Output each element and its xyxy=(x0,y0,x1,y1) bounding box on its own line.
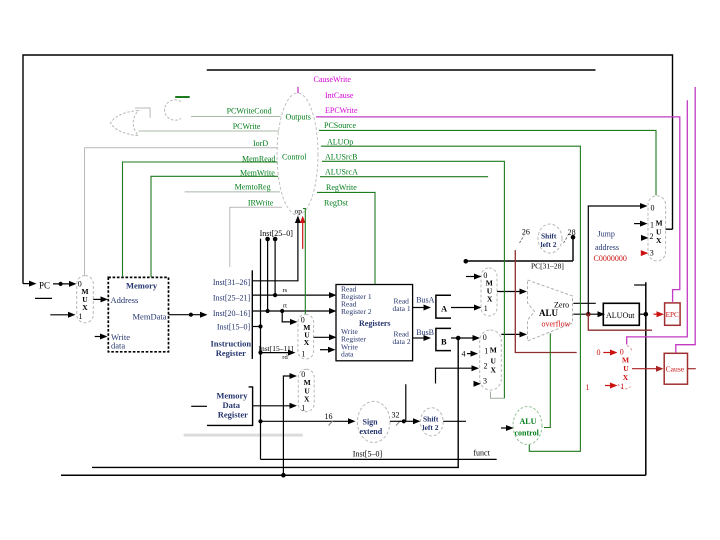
svg-text:Instruction: Instruction xyxy=(211,339,252,349)
svg-text:X: X xyxy=(82,303,88,312)
svg-text:ALUOut: ALUOut xyxy=(606,311,635,320)
svg-text:data 1: data 1 xyxy=(393,304,411,313)
svg-text:Control: Control xyxy=(282,153,307,162)
label bus width 28 xyxy=(564,228,576,243)
svg-text:1: 1 xyxy=(301,403,305,412)
register MDR bracket xyxy=(207,387,253,426)
wire: Read data 2 to B xyxy=(413,335,431,341)
svg-text:PCSource: PCSource xyxy=(324,121,356,130)
svg-text:Outputs: Outputs xyxy=(286,113,311,122)
wire: Read register 1 row xyxy=(252,292,336,298)
wire: PCSource mux input 1 xyxy=(634,221,647,227)
wire: Read data 1 to A xyxy=(413,305,431,311)
svg-text:Inst[25–0]: Inst[25–0] xyxy=(260,229,294,238)
svg-text:ALUSrcB: ALUSrcB xyxy=(325,153,357,162)
wire: rt tap down to RegDst mux input 0 xyxy=(282,311,297,325)
wire: B loop into Memory write data xyxy=(92,334,458,468)
svg-text:ALUSrcA: ALUSrcA xyxy=(325,168,358,177)
svg-text:1: 1 xyxy=(484,346,488,355)
node PC xyxy=(39,281,50,291)
label PCWriteCond xyxy=(227,107,272,116)
wire: IorD mux output to Memory Address xyxy=(93,296,108,302)
svg-text:EPC: EPC xyxy=(666,311,679,319)
svg-text:C0000000: C0000000 xyxy=(594,254,627,263)
label IRWrite xyxy=(248,199,274,208)
wire: Inst[5-0] to ALU control xyxy=(261,458,497,460)
wire: sign-extend branch from Inst[15-0] column xyxy=(258,418,355,424)
svg-text:IntCause: IntCause xyxy=(325,91,354,100)
svg-text:data 2: data 2 xyxy=(393,337,411,346)
wire: red 0 arrow into IntCause mux xyxy=(603,350,617,356)
svg-text:RegWrite: RegWrite xyxy=(326,183,357,192)
svg-text:Registers: Registers xyxy=(359,319,391,328)
svg-text:0: 0 xyxy=(483,333,487,342)
wire: PCSource mux output to frame xyxy=(666,228,673,230)
wire: EPCWrite magenta routing to EPC xyxy=(316,117,680,302)
svg-text:BusA: BusA xyxy=(416,295,434,304)
wire: PCSource mux input 2 arrowhead xyxy=(641,235,649,241)
wire: ALUOut bottom distribution line xyxy=(61,474,646,476)
wire: IntCause mux output to Cause xyxy=(632,366,664,372)
wire: RegWrite green routing to Registers xyxy=(317,192,375,284)
mux IorD (0/1) xyxy=(77,276,94,323)
svg-text:left 2: left 2 xyxy=(541,240,557,249)
svg-text:M: M xyxy=(656,219,663,228)
register A bracket xyxy=(436,295,451,318)
mux PCSource (0/1/2/3) xyxy=(648,196,666,261)
svg-text:IRWrite: IRWrite xyxy=(248,199,274,208)
svg-text:3: 3 xyxy=(483,376,487,385)
wire: maroon EPC feed elbow xyxy=(588,314,652,330)
label EPCWrite xyxy=(325,106,358,115)
wire: 28-bit drop to PC[31-28] line xyxy=(571,235,576,261)
wire: ALUOut loopback to IorD mux input 1 xyxy=(50,312,75,318)
wire: A output to ALUSrcA mux input 1 xyxy=(451,305,482,311)
wire: PCSource mux input 3 red arrowhead xyxy=(641,250,649,256)
svg-text:Register: Register xyxy=(216,348,246,358)
label Inst[5-0] xyxy=(353,449,383,458)
mux RegDst (0/1) xyxy=(298,314,314,359)
wire: constant 4 arrow to ALUSrcB input 1 xyxy=(467,351,478,357)
svg-text:Register 2: Register 2 xyxy=(341,307,372,316)
alu ALU trapezoid xyxy=(528,280,573,341)
label PCWrite xyxy=(233,122,261,131)
label ALUOp xyxy=(327,138,353,147)
svg-text:U: U xyxy=(623,364,629,373)
wire: funct stub into ALU control xyxy=(501,425,514,431)
wire: Inst[15-11] to RegDst mux input 1 xyxy=(258,350,295,356)
label IntCause xyxy=(325,91,354,100)
svg-text:1: 1 xyxy=(79,312,83,321)
label rd xyxy=(282,354,288,361)
alu-control oval xyxy=(513,407,542,445)
register IR vertical edge xyxy=(251,270,253,359)
memory MEM xyxy=(108,277,168,351)
label Inst[15-0] xyxy=(217,322,251,331)
wire: op row Inst[31-26] up to Control xyxy=(252,216,301,281)
label Inst[25-21] xyxy=(213,294,251,303)
wire: PC to IorD mux with junction xyxy=(53,281,77,287)
wire: ALUOut big right vertical xyxy=(645,282,647,475)
wire: RegDst mux output to Write register xyxy=(314,334,337,340)
svg-text:4: 4 xyxy=(462,350,466,359)
svg-text:Memory: Memory xyxy=(126,281,158,291)
svg-text:3: 3 xyxy=(650,249,654,258)
wire: write data floating arrow xyxy=(320,347,336,353)
register IR label xyxy=(211,339,252,359)
svg-text:Register: Register xyxy=(218,410,248,420)
svg-text:CauseWrite: CauseWrite xyxy=(314,75,352,84)
wire: MemRead green routing to Memory xyxy=(123,162,278,277)
svg-text:X: X xyxy=(656,236,662,245)
label MemWrite xyxy=(240,168,275,177)
svg-text:ALU: ALU xyxy=(520,417,537,426)
label bus width 16 with slash xyxy=(325,412,334,426)
shifter Shift left 2 (branch) xyxy=(420,408,443,436)
label RegWrite xyxy=(326,183,357,192)
wire: shift left 2 output xyxy=(443,420,466,422)
svg-text:1: 1 xyxy=(621,382,625,391)
wire: PCSource green routing to PCSource mux xyxy=(319,130,656,195)
wire: magenta stub at control top xyxy=(297,87,299,93)
wire: MemtoReg gray wire xyxy=(185,191,280,193)
label red constant 1 xyxy=(586,383,590,392)
svg-text:U: U xyxy=(491,356,497,365)
label funct xyxy=(473,449,490,458)
mux ALUSrcA (0/1) xyxy=(481,268,497,316)
wire: inner top horizontal xyxy=(207,69,596,71)
wire: ALUOut loop up to MemtoReg mux input 0 xyxy=(281,373,297,478)
register B bracket xyxy=(436,328,451,350)
label PCSource xyxy=(324,121,356,130)
svg-text:control: control xyxy=(515,428,540,437)
svg-text:data: data xyxy=(111,341,125,351)
svg-text:ALUOp: ALUOp xyxy=(327,138,353,147)
svg-text:funct: funct xyxy=(473,449,490,458)
svg-text:Data: Data xyxy=(223,400,241,410)
wire: ALUOp green routing to ALU control xyxy=(321,146,580,451)
wire: RegDst green routing to RegDst mux xyxy=(303,209,305,315)
svg-text:Inst[5–0]: Inst[5–0] xyxy=(353,449,383,458)
wire: IorD select vertical gray xyxy=(84,148,86,276)
label MemtoReg xyxy=(235,182,271,191)
mux IntCause (0/1) red xyxy=(618,346,632,391)
wire: ALUSrcB select entry bracket xyxy=(491,392,505,399)
wire: ALUSrcB output to ALU xyxy=(501,331,527,337)
svg-text:PC: PC xyxy=(39,281,50,291)
wire: MemData output with junction xyxy=(169,312,208,318)
wire: ALU result up to PCSource mux input 0 xyxy=(588,203,647,314)
gray band artifact xyxy=(184,434,303,437)
svg-text:X: X xyxy=(487,295,493,304)
register ALUOut xyxy=(603,303,639,325)
svg-text:X: X xyxy=(304,338,310,347)
svg-text:Inst[20–16]: Inst[20–16] xyxy=(213,309,251,318)
wire: PCWrite gray wire xyxy=(139,130,280,132)
wire: Cause right stub xyxy=(688,368,696,370)
svg-text:Jump: Jump xyxy=(598,229,615,238)
svg-text:1: 1 xyxy=(586,383,590,392)
svg-text:ALU: ALU xyxy=(539,308,559,318)
wire: red op arrow xyxy=(300,216,306,249)
wire: Inst tap column 3 with top dot xyxy=(273,237,278,295)
svg-text:X: X xyxy=(304,395,310,404)
label bus width 26 with slash xyxy=(520,227,530,243)
wire: red 1 arrow into IntCause mux xyxy=(605,383,618,389)
svg-text:Inst[15–0]: Inst[15–0] xyxy=(217,322,251,331)
svg-text:1: 1 xyxy=(301,350,305,359)
wire: MDR input dash xyxy=(191,405,207,407)
wire: Inst[15-0] column vertical xyxy=(260,239,262,460)
wire: Inst[15-0] short row to column dot xyxy=(252,324,262,328)
svg-text:2: 2 xyxy=(484,361,488,370)
wire: ALUSrcB green routing xyxy=(322,161,504,398)
label red constant 0 xyxy=(597,348,601,357)
svg-text:extend: extend xyxy=(360,427,383,436)
svg-text:0: 0 xyxy=(651,204,655,213)
svg-text:MemtoReg: MemtoReg xyxy=(235,182,271,191)
svg-text:A: A xyxy=(441,303,448,313)
label Inst[15-11] xyxy=(259,344,294,353)
mux ALUSrcB (0/1/2/3) xyxy=(480,330,502,390)
svg-text:Sign: Sign xyxy=(363,418,379,427)
svg-text:16: 16 xyxy=(325,412,333,421)
register Cause xyxy=(664,353,687,384)
label BusB xyxy=(416,328,434,337)
label C0000000 xyxy=(594,254,627,263)
sign extender xyxy=(357,401,390,442)
shifter Shift left 2 (jump) xyxy=(538,224,562,253)
wire: B output to ALUSrcB mux input 0 with junction xyxy=(451,335,480,341)
svg-text:Cause: Cause xyxy=(666,365,685,374)
wire: ALUSrcA output to ALU xyxy=(497,289,527,295)
label constant 4 xyxy=(462,350,466,359)
svg-text:left 2: left 2 xyxy=(423,423,439,432)
svg-text:PCWrite: PCWrite xyxy=(233,122,261,131)
label PC[31-28] xyxy=(531,262,564,271)
wire: ALUSrcB input 2 elbow xyxy=(436,365,480,383)
label MemRead xyxy=(242,154,275,163)
wire: MemWrite green routing to Memory xyxy=(151,176,278,277)
wire: sign extend up-branch stub xyxy=(405,384,407,421)
wire: IntCause magenta routing to IntCause mux xyxy=(627,100,688,344)
wire: AND-OR step xyxy=(135,108,150,118)
wire: PC feedback frame top xyxy=(23,55,673,284)
label ALUSrcA xyxy=(325,168,358,177)
wire: ALUOut output to right vertical with junction xyxy=(639,312,648,317)
svg-text:2: 2 xyxy=(650,232,654,241)
wire: IorD gray wire xyxy=(85,147,279,149)
label rs xyxy=(283,287,288,294)
label Inst[31-26] xyxy=(213,278,251,287)
svg-text:EPCWrite: EPCWrite xyxy=(325,106,358,115)
svg-text:op: op xyxy=(295,206,303,215)
svg-text:B: B xyxy=(441,337,447,347)
wire: IRWrite gray wire and drop to IR xyxy=(230,207,282,267)
gate AND arc xyxy=(165,100,181,120)
wire: Zero output stub xyxy=(573,302,596,304)
svg-text:RegDst: RegDst xyxy=(324,199,349,208)
wire: sign extend output with junction xyxy=(390,418,421,424)
wire: ALUSrcA green stub xyxy=(320,176,488,178)
gate OR (PC write) xyxy=(111,111,139,136)
register file Registers box xyxy=(336,284,413,361)
label BusA xyxy=(416,295,434,304)
register EPC xyxy=(665,303,681,325)
label bus width 32 xyxy=(392,411,401,426)
svg-text:rt: rt xyxy=(283,302,287,309)
label Inst[25-0] xyxy=(260,229,294,238)
svg-text:data: data xyxy=(341,350,354,359)
wire: dash stub left of IorD mux row2 xyxy=(35,297,52,299)
svg-text:address: address xyxy=(595,243,619,252)
label ALUSrcB xyxy=(325,153,357,162)
wire: CauseWrite magenta routing to Cause xyxy=(676,87,695,353)
svg-text:overflow: overflow xyxy=(542,320,571,329)
svg-text:Address: Address xyxy=(111,295,139,305)
label rt xyxy=(283,302,287,309)
control unit oval xyxy=(277,93,318,215)
wire: PC[31-28] line with junction dots xyxy=(464,259,574,264)
svg-text:MemData: MemData xyxy=(133,312,167,322)
wire: MDR output to MemtoReg mux input 1 xyxy=(253,403,297,409)
wire: ALU control output green to ALU xyxy=(544,333,550,427)
svg-text:X: X xyxy=(623,373,629,382)
label IorD xyxy=(253,139,268,148)
svg-text:rs: rs xyxy=(283,287,288,294)
svg-text:IorD: IorD xyxy=(253,139,268,148)
svg-text:Inst[25–21]: Inst[25–21] xyxy=(213,294,251,303)
register MDR label xyxy=(216,391,248,420)
wire: hook at top of right vertical xyxy=(634,284,646,286)
wire: green stub above AND gate xyxy=(175,96,190,98)
svg-text:rd: rd xyxy=(282,354,288,361)
svg-text:PCWriteCond: PCWriteCond xyxy=(227,107,272,116)
wire: PC value to ALUSrcA input 0 xyxy=(466,274,482,280)
svg-text:M: M xyxy=(490,346,497,355)
svg-text:PC[31–28]: PC[31–28] xyxy=(531,262,564,271)
mux MemtoReg (0/1) xyxy=(298,369,314,412)
svg-text:X: X xyxy=(491,366,497,375)
wire: red arrow into EPC xyxy=(654,311,665,317)
label CauseWrite xyxy=(314,75,352,84)
svg-text:1: 1 xyxy=(650,221,654,230)
label Inst[20-16] xyxy=(213,309,251,318)
svg-text:32: 32 xyxy=(392,411,400,420)
wire: ALU result to ALUOut with red junction xyxy=(573,311,605,317)
svg-text:26: 26 xyxy=(522,227,530,236)
wire: PC input arrow xyxy=(23,281,37,287)
svg-text:1: 1 xyxy=(484,304,488,313)
wire: ALUSrcB input 3 arrowhead stub xyxy=(474,381,482,387)
wire: Read register 2 row with junctions xyxy=(252,308,336,314)
label Jump address xyxy=(595,229,619,252)
label RegDst xyxy=(324,199,349,208)
wire: PCWriteCond gray wire xyxy=(191,116,281,118)
wire: maroon jump-address line xyxy=(515,250,576,352)
wire: Inst tap column 2 with top dot xyxy=(265,237,270,311)
svg-text:Inst[31–26]: Inst[31–26] xyxy=(213,278,251,287)
svg-text:0: 0 xyxy=(597,348,601,357)
